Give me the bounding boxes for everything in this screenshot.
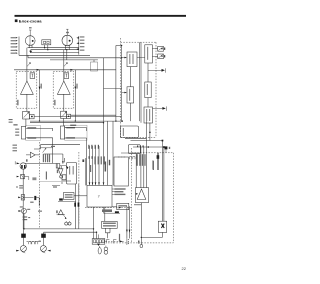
indicator lamps H3 H4: [65, 221, 71, 225]
micro marks mid input: [19, 185, 23, 188]
arrow down under left head: [29, 51, 32, 53]
junction dots top bus: [44, 47, 68, 50]
head right winding labels: [66, 125, 76, 139]
arrow on bus right: [70, 69, 73, 71]
section title Блок-схема: [15, 19, 43, 23]
wire: side line with down arrow left: [39, 70, 42, 122]
tape head B4: [60, 126, 65, 139]
wire: power amp feeds: [136, 147, 144, 188]
bias amp U8: [145, 82, 151, 98]
dashed line x131.7: [131, 148, 133, 243]
power amp A5: [136, 188, 149, 203]
mid label columns: [43, 154, 50, 162]
junction dots main bus: [75, 120, 117, 123]
wire: main bus y121.1: [30, 120, 122, 122]
input stage T1 box: [30, 73, 35, 79]
svg-text:22: 22: [182, 266, 187, 271]
wire: power amp drops: [126, 206, 130, 238]
input label ticks: [15, 161, 19, 187]
wire: x149.9 drop: [149, 123, 151, 141]
aux jack X6: [18, 208, 26, 213]
svg-text:Блок-схема: Блок-схема: [19, 19, 43, 23]
wire: x103.5 long vertical: [103, 58, 105, 186]
wire: box bottom drops: [94, 207, 97, 239]
label above head drop: [51, 146, 55, 147]
wire: top bus b: [31, 45, 79, 50]
monitor amp A4: [58, 166, 71, 184]
wire: side line with down arrow right: [74, 70, 77, 121]
wire: y147 link: [133, 145, 165, 148]
diag stub left amp: [27, 63, 31, 67]
cassette window W1: [120, 126, 138, 138]
record/play head B2: [62, 29, 73, 46]
line out jack X10: [152, 46, 165, 51]
system control U3: [87, 185, 112, 207]
stub x57.2: [57, 163, 58, 173]
input stage T2 box: [64, 73, 69, 79]
wire: pot left output: [34, 115, 121, 117]
wire: line y163.4: [25, 162, 56, 164]
control box U2: [59, 193, 87, 201]
dashed chassis right edge: [134, 42, 156, 137]
head switch S1: [42, 40, 51, 45]
op-amp A1 playback L: [21, 48, 34, 112]
record level amp A6: [56, 210, 66, 219]
wire: switch box drops: [45, 45, 48, 50]
output jack X12: [148, 68, 166, 72]
cassette window W2: [128, 145, 140, 154]
line input jack X3: [17, 159, 28, 169]
bias oscillator G1: [102, 221, 118, 228]
micro marks low input: [20, 206, 24, 207]
lamp H2: [104, 246, 108, 255]
wire: y88.6 branch: [104, 88, 122, 90]
preamp A3: [26, 152, 40, 157]
left margin labels mid: [13, 145, 18, 152]
record eq U7: [122, 87, 134, 103]
head left enclosure: [26, 125, 41, 140]
left margin micro labels: [9, 119, 13, 123]
wire: aux down and bus y228.9: [23, 214, 94, 230]
dashed chassis outer right edge: [132, 153, 174, 243]
wire: corner into dashed area: [116, 45, 122, 47]
wire: left pin bus: [18, 37, 20, 56]
playback eq U5: [122, 52, 137, 67]
input selector S2: [56, 164, 66, 168]
wire: y147.8 stub: [40, 147, 52, 149]
connector X1 pin labels: [11, 37, 18, 54]
wire: relay drop: [93, 60, 95, 62]
wire: din2 route: [27, 196, 42, 212]
wire: x115.9 vertical: [115, 46, 117, 122]
logic unit U4: [114, 157, 128, 186]
meter label columns: [137, 154, 146, 166]
wire: head left outputs: [27, 128, 53, 163]
labels right of logic box: [152, 155, 159, 169]
connector X2 pin column: [76, 36, 84, 55]
wire: top bus a: [28, 44, 79, 48]
control bus labels: [82, 145, 110, 172]
wire: box column links: [130, 63, 148, 121]
bus connector X9: [92, 234, 105, 246]
wire: x141.3 vertical to bottom: [138, 205, 143, 248]
level pot R2: [61, 111, 67, 118]
wire: preamp corners: [34, 145, 80, 149]
wire: y140.5 link: [131, 140, 164, 142]
lamp H1: [98, 246, 101, 254]
mute components: [118, 153, 141, 159]
head left winding labels: [13, 124, 36, 139]
misc labels mid-left: [32, 172, 47, 181]
wire: bottom link y237.4: [141, 232, 162, 237]
arrow on bus left: [37, 69, 40, 71]
op-amp A2 playback R: [57, 50, 70, 111]
dashed line mid-left: [39, 142, 41, 228]
wire: bus y55.3: [19, 54, 90, 56]
control bus wires into box: [86, 146, 105, 185]
wire: right column pair: [139, 42, 141, 123]
module A2 dashed enclosure: [53, 72, 74, 109]
tape head B3: [21, 126, 27, 139]
speaker connector X8: [40, 232, 50, 253]
junction dot corner: [121, 45, 122, 46]
wire: bus y232.2: [44, 231, 97, 233]
labels under logic box: [112, 188, 126, 195]
wire: long bus y69.8: [14, 69, 116, 71]
dashed stub row: [105, 239, 124, 243]
wire: head right outputs: [65, 128, 87, 186]
wire: branch y59.8: [50, 50, 98, 60]
wire: relay drops x75.6 x78.8: [58, 184, 79, 229]
erase head B1: [25, 27, 35, 45]
dashed service line: [85, 207, 132, 209]
light rule y181.5: [40, 181, 61, 183]
dashed line x78.9: [78, 152, 80, 225]
wire: oscillator drops: [105, 207, 110, 238]
wire: motor feed pair: [162, 141, 164, 222]
wire: bus y57.8: [28, 55, 122, 58]
terminal marks right of bus: [127, 238, 129, 245]
wire: y138.3 link: [125, 137, 146, 139]
wire: input column: [22, 169, 24, 229]
diag stub right amp: [64, 63, 68, 67]
wire: y213.2 link: [104, 207, 120, 213]
mode label strip: [102, 209, 112, 212]
wire: bus y52.6: [31, 50, 79, 53]
label tyh vyh: [119, 234, 120, 242]
line out jack X11: [152, 54, 165, 59]
wire: x146.4 drop: [145, 121, 147, 188]
pot contact R1a: [29, 114, 34, 118]
wire: pot-to-head drops: [26, 118, 64, 126]
module A1 dashed enclosure: [16, 72, 37, 109]
head right enclosure: [65, 125, 87, 140]
switch unit U1: [66, 162, 76, 184]
din jack X4: [21, 174, 29, 180]
motor M1: [158, 221, 166, 232]
wire: aux pair x157.4: [157, 153, 158, 170]
wire: pot right output: [71, 114, 116, 116]
speaker connector X7: [16, 229, 26, 253]
wire: y154 link: [44, 153, 63, 155]
timer U10: [112, 203, 129, 209]
wire: drops into logic box: [108, 121, 113, 185]
line amp U6: [137, 45, 152, 63]
wire: power amp out: [134, 203, 142, 205]
dashed chassis bottom edge: [108, 242, 173, 244]
label left of motor feed: [153, 161, 154, 170]
gain tick mark: [43, 148, 47, 153]
dashed chassis top edge: [121, 41, 157, 43]
meter drive U9: [144, 107, 153, 123]
level pot R1: [23, 111, 30, 119]
dashed chassis left edge: [121, 38, 135, 138]
label right amp: [54, 100, 55, 106]
label left amp: [17, 100, 18, 106]
jack labels: [23, 216, 31, 220]
label left of control box: [52, 186, 60, 188]
din jack X5: [18, 195, 33, 200]
wire: x121.6 vertical: [121, 46, 123, 122]
output jack X13: [153, 106, 167, 110]
relay K1: [91, 62, 98, 71]
header rule bar: [15, 15, 187, 17]
mains connector X14: [165, 146, 171, 152]
wire: selector drops: [62, 154, 68, 169]
rc network R3 C1: [27, 241, 42, 245]
pot contact R2a: [67, 114, 71, 118]
wire: main bus y122.7: [30, 122, 104, 124]
